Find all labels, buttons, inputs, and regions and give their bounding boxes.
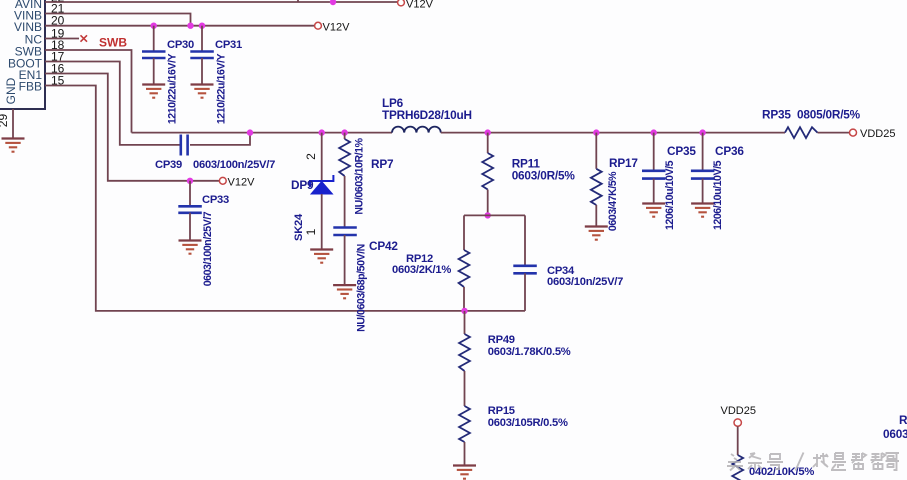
terminal V12V top [398,0,405,6]
svg-text:1206/10u/10V/5: 1206/10u/10V/5 [712,160,724,230]
svg-text:0603/0R/5%: 0603/0R/5% [512,169,576,183]
svg-text:TPRH6D28/10uH: TPRH6D28/10uH [382,108,472,122]
svg-text:0603/1: 0603/1 [883,427,907,441]
capacitor CP30 [142,26,166,84]
node junction on AVIN wire [330,0,336,5]
resistor partial bottom right [732,455,743,480]
svg-text:0603/100n/25V/7: 0603/100n/25V/7 [202,211,214,286]
value RP12 [392,264,451,276]
svg-text:2: 2 [304,153,318,160]
pin number 15 [51,74,65,88]
svg-text:CP35: CP35 [667,144,696,158]
value TPRH6D28/10uH [382,108,472,122]
svg-text:1: 1 [304,228,318,235]
label CP42 [369,239,398,253]
svg-text:VDD25: VDD25 [721,405,756,417]
svg-text:CP36: CP36 [715,144,744,158]
wire RP12/CP34 loop top [464,214,525,216]
ground RP17 [585,227,608,240]
pin number 16 [51,62,65,76]
svg-text:1210/22u/16V/Y: 1210/22u/16V/Y [215,53,227,124]
svg-text:0805/0R/5%: 0805/0R/5% [797,108,861,122]
svg-text:1206/10u/10V/5: 1206/10u/10V/5 [664,160,676,230]
capacitor CP35 [642,133,666,203]
capacitor CP39 [181,135,188,156]
svg-text:NU/0603/68p/50V/N: NU/0603/68p/50V/N [355,244,367,332]
wire CP39 to switch node [190,133,250,145]
svg-text:RP35: RP35 [762,108,791,122]
svg-text:V12V: V12V [228,177,256,189]
ground DP9 [310,250,333,263]
svg-text:CP39: CP39 [155,159,182,171]
svg-text:0603/2K/1%: 0603/2K/1% [392,264,451,276]
node junction feedback divider [461,308,467,314]
svg-text:RP17: RP17 [609,156,638,170]
terminal V12V EN1 [219,177,226,184]
ground CP30 [142,85,165,98]
value RP15 [488,417,568,429]
pin number 17 [51,50,65,64]
resistor RP15 [459,406,470,465]
net label VDD25 [860,128,895,140]
pin number 20 [51,14,65,28]
resistor RP12 [459,215,470,311]
value 0402/10K/5% [749,466,814,478]
pin number 18 [51,38,65,52]
ground RP15 [453,466,476,479]
ground CP31 [191,85,214,98]
svg-text:SWB: SWB [99,36,127,50]
capacitor CP33 [178,181,202,240]
pin FBB name [19,80,42,94]
svg-text:SK24: SK24 [293,213,305,241]
pin NC name [25,33,43,47]
node junction VINB drop [187,23,193,29]
node junction RP17 top [593,129,599,135]
label DP9 [291,178,314,192]
pin number 21 [51,2,65,16]
pin number 22 [51,0,65,5]
pin VINB2 name [14,20,42,34]
pin AVIN name [15,0,42,11]
wire pin16 EN1 to V12V [45,74,220,181]
value CP30 rotated 1210/22u/16V/Y [166,53,178,124]
label RP17 [609,156,638,170]
node junction CP33 top [187,178,193,184]
wire pin29 GND stub [12,109,14,138]
op-amp U1 regulator IC box [0,0,45,109]
net label SWB red [99,36,127,50]
value CP36 rotated 1206/10u/10V/5 [712,160,724,230]
wire pin21 VINB drop to VINB rail [45,14,191,26]
pin number 29 rotated [0,114,10,128]
pin GND name rotated [4,77,18,104]
label CP31 [215,39,242,51]
label CP39 [155,159,182,171]
node junction CP35 top [651,129,657,135]
svg-text:RP49: RP49 [488,334,515,346]
svg-text:CP30: CP30 [167,39,194,51]
capacitor CP34 [513,215,537,311]
ground CP33 [179,241,202,254]
svg-text:0603/100n/25V/7: 0603/100n/25V/7 [193,159,275,171]
terminal V12V mid [315,22,322,29]
resistor RP49 [459,311,470,406]
label CP36 [715,144,744,158]
label RP49 [488,334,515,346]
ground CP36 [691,204,714,217]
wire pin18 SWB to switch node [45,50,132,133]
no-connect X on pin 19 [81,35,88,41]
svg-text:0402/10K/5%: 0402/10K/5% [749,466,814,478]
svg-text:NU/0603/10R/1%: NU/0603/10R/1% [353,137,365,214]
svg-text:0603/105R/0.5%: 0603/105R/0.5% [488,417,568,429]
node junction CP39 riser on SW rail [247,129,253,135]
label RP7 [371,157,394,171]
node junction CP31 top [199,23,205,29]
terminal VDD25 [850,129,857,136]
ground pin29 [2,139,25,152]
label RP35 [762,108,791,122]
node junction RP11 top [485,129,491,135]
value CP35 rotated 1206/10u/10V/5 [664,160,676,230]
net label VDD25 bottom [721,405,756,417]
value CP31 rotated 1210/22u/16V/Y [215,53,227,124]
wire pin17 BOOT to CP39 [45,62,180,145]
value RP7 rotated NU/0603/10R/1% [353,137,365,214]
node junction CP36 top [699,129,705,135]
svg-text:0603/47K/5%: 0603/47K/5% [607,171,619,231]
svg-text:1210/22u/16V/Y: 1210/22u/16V/Y [166,53,178,124]
terminal VDD25 bottom [734,419,741,426]
node junction DP9 on SW rail [319,129,325,135]
wire pin15 FBB to feedback node [45,86,525,311]
label LP6 [382,96,404,110]
inductor LP6 [392,127,441,133]
ground CP42 [333,285,356,298]
svg-text:RP7: RP7 [371,157,394,171]
label CP35 [667,144,696,158]
value SK24 rotated [293,213,305,241]
net label V12V mid [323,22,351,34]
svg-text:RP15: RP15 [488,405,515,417]
svg-text:0603/1.78K/0.5%: 0603/1.78K/0.5% [488,346,571,358]
wire VDD25 bottom to resistor [737,426,739,455]
value fragment right edge 0603/ [883,427,907,441]
pin SWB name [15,45,42,59]
pin EN1 name [19,68,43,82]
resistor RP7 [339,133,350,227]
ground CP35 [642,204,665,217]
label RP15 [488,405,515,417]
resistor RP17 [591,133,602,226]
label CP34 [547,265,575,277]
net label V12V EN1 [228,177,256,189]
wire pin20 VINB rail to V12V [45,25,315,27]
capacitor CP42 [333,228,357,285]
svg-text:29: 29 [0,114,10,128]
node junction feedback top [485,212,491,218]
resistor RP11 [482,133,493,216]
pin number 1 of DP9 rotated [304,228,318,235]
pin BOOT name [8,57,43,71]
value CP42 rotated NU/0603/68p/50V/N [355,244,367,332]
svg-text:0603/10n/25V/7: 0603/10n/25V/7 [547,276,623,288]
label CP30 [167,39,194,51]
label RP12 [406,253,433,265]
svg-text:RP: RP [899,413,907,427]
pin number 2 of DP9 rotated [304,153,318,160]
node junction RP7 on SW rail [341,129,347,135]
label fragment right edge R [899,413,907,427]
watermark 头条号 / 我是帮帮哥 [727,453,899,471]
value RP35 [797,108,861,122]
wire output rail LP6 to RP35 [441,132,785,134]
capacitor CP36 [691,133,715,203]
svg-text:V12V: V12V [323,22,351,34]
net label V12V top [406,0,434,11]
value RP49 [488,346,571,358]
diode DP9 (schottky) [310,133,333,249]
svg-text:VDD25: VDD25 [860,128,895,140]
capacitor CP31 [190,26,214,84]
value CP33 rotated 0603/100n/25V/7 [202,211,214,286]
svg-text:FBB: FBB [19,80,42,94]
value RP17 rotated 0603/47K/5% [607,171,619,231]
node junction CP30 top [151,23,157,29]
wire pin19 NC stub [45,38,79,40]
pin number 19 [51,27,65,41]
svg-text:DP9: DP9 [291,178,314,192]
svg-text:V12V: V12V [406,0,434,11]
svg-text:CP31: CP31 [215,39,242,51]
resistor RP35 [785,127,850,138]
label RP11 [512,157,541,171]
wire pin22 AVIN to V12V [45,0,398,2]
wire switch node rail [132,132,393,134]
pin VINB name [14,9,42,23]
svg-text:CP42: CP42 [369,239,398,253]
value CP39 [193,159,275,171]
svg-text:CP33: CP33 [202,194,229,206]
label CP33 [202,194,229,206]
svg-text:GND: GND [4,77,18,104]
value RP11 [512,169,576,183]
value CP34 [547,276,623,288]
